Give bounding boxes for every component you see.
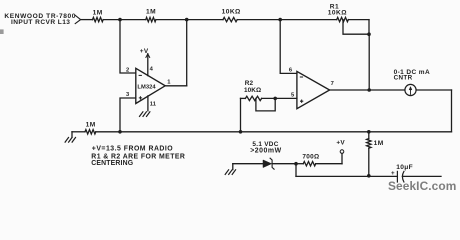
svg-text:11: 11 xyxy=(150,101,157,107)
svg-text:R2: R2 xyxy=(245,80,254,87)
svg-text:+: + xyxy=(391,170,395,177)
svg-text:+V=13.5 FROM RADIO: +V=13.5 FROM RADIO xyxy=(92,145,174,152)
svg-text:1M: 1M xyxy=(374,140,384,147)
svg-text:SeekIC.com: SeekIC.com xyxy=(388,179,456,193)
svg-text:10KΩ: 10KΩ xyxy=(244,87,261,94)
svg-text:INPUT RCVR L13: INPUT RCVR L13 xyxy=(11,19,70,26)
svg-text:700Ω: 700Ω xyxy=(302,154,319,161)
svg-text:+V: +V xyxy=(140,48,149,55)
svg-text:10KΩ: 10KΩ xyxy=(328,10,347,17)
svg-text:1: 1 xyxy=(167,79,171,85)
svg-text:2: 2 xyxy=(126,67,129,73)
svg-text:+V: +V xyxy=(336,139,345,146)
svg-text:1M: 1M xyxy=(146,9,156,16)
svg-text:LM324: LM324 xyxy=(137,85,156,91)
svg-text:1M: 1M xyxy=(86,122,96,129)
svg-text:5: 5 xyxy=(291,93,295,99)
svg-text:3: 3 xyxy=(126,92,130,98)
svg-text:1M: 1M xyxy=(93,9,103,16)
svg-text:7: 7 xyxy=(331,81,334,87)
svg-text:10KΩ: 10KΩ xyxy=(222,9,241,16)
svg-text:>200mW: >200mW xyxy=(250,148,281,155)
svg-text:CENTERING: CENTERING xyxy=(91,160,133,167)
svg-text:4: 4 xyxy=(150,67,154,73)
svg-text:CNTR: CNTR xyxy=(394,75,413,82)
svg-text:6: 6 xyxy=(289,68,293,74)
svg-text:10μF: 10μF xyxy=(396,164,413,171)
